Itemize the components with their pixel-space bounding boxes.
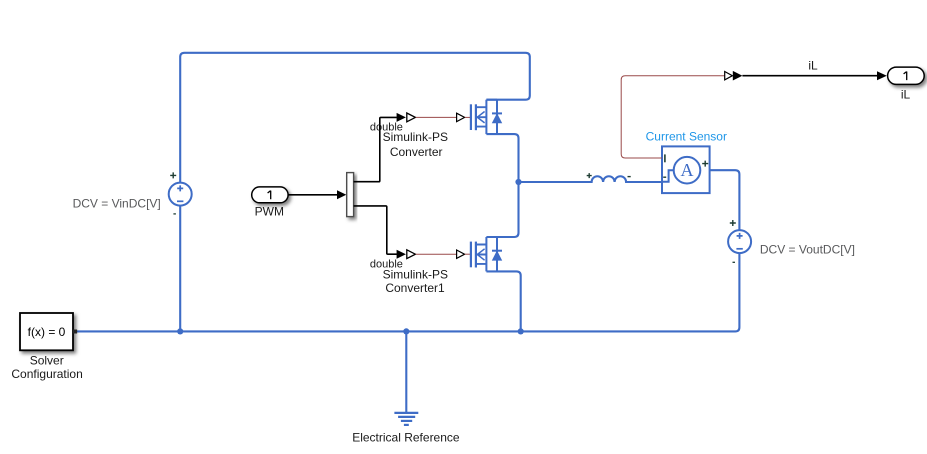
wire: bottom bus from Solver Configuration to VoutDC - terminal (77, 253, 740, 331)
svg-text:Electrical Reference: Electrical Reference (352, 430, 460, 444)
VinDC + port label (170, 172, 176, 178)
sensor - port label (663, 176, 666, 178)
Simulink-PS Converter1 block (triangle icon) (407, 250, 416, 259)
wire: demux out 1 to Simulink-PS Converter (354, 117, 397, 181)
svg-text:DCV = VinDC[V]: DCV = VinDC[V] (73, 197, 161, 211)
MOSFET Q2 (471, 182, 519, 271)
svg-text:f(x) = 0: f(x) = 0 (28, 325, 66, 339)
wire: switch node to inductor to Current Sensor (519, 176, 663, 182)
wire: demux out 2 to Simulink-PS Converter1 (354, 206, 397, 254)
input port PWM (252, 187, 288, 203)
arrowhead into outport (877, 71, 887, 80)
MOSFET Q1 (471, 100, 519, 182)
solver configuration block (20, 313, 77, 350)
current sensor block (662, 146, 710, 193)
svg-text:Current Sensor: Current Sensor (646, 129, 727, 143)
VinDC - port label (173, 213, 176, 215)
sensor + port label (702, 161, 708, 167)
wire: VinDC - terminal down to bottom bus (179, 206, 181, 332)
wire: ground lead (405, 331, 407, 412)
physical signal line: converter to Q1 gate (416, 116, 457, 118)
svg-text:A: A (681, 160, 694, 180)
arrowhead into Simulink-PS Converter1 (397, 250, 406, 259)
arrowhead into PS-Simulink converter (725, 72, 733, 80)
arrowhead into demux (337, 190, 346, 199)
junction: ground on bottom bus (403, 328, 409, 334)
dc voltage source VoutDC (728, 230, 751, 253)
inductor - port label (628, 176, 631, 178)
svg-text:Solver: Solver (30, 353, 64, 367)
inductor + port label (587, 173, 592, 178)
dc voltage source VinDC (169, 183, 192, 206)
junction: VinDC on bottom bus (177, 328, 183, 334)
wire: PWM to demux (288, 194, 337, 196)
wire: MOSFET Q2 source to bottom bus (486, 271, 520, 331)
svg-text:iL: iL (808, 59, 818, 73)
svg-text:Simulink-PS: Simulink-PS (383, 130, 448, 144)
junction: switch node (515, 179, 521, 185)
wire: Current Sensor + output to VoutDC + terminal (700, 170, 739, 230)
wire: converter to iL outport (742, 75, 877, 77)
VoutDC - port label (733, 261, 736, 263)
wire: top bus from VinDC + to MOSFET Q1 drain (180, 53, 530, 183)
svg-text:iL: iL (901, 88, 911, 102)
VoutDC + port label (730, 220, 736, 226)
svg-text:Simulink-PS: Simulink-PS (383, 268, 448, 282)
junction: Q2 source on bottom bus (518, 328, 524, 334)
output port iL (888, 67, 925, 84)
demux (347, 173, 354, 217)
arrowhead at Q1 gate (457, 113, 465, 121)
svg-text:Converter1: Converter1 (385, 281, 445, 295)
physical signal line: converter1 to Q2 gate (416, 253, 457, 255)
ground: Electrical Reference symbol (394, 413, 418, 425)
Simulink-PS Converter block (triangle icon) (407, 113, 416, 122)
arrowhead at Q2 gate (457, 250, 465, 258)
svg-text:Configuration: Configuration (11, 367, 82, 381)
svg-text:DCV = VoutDC[V]: DCV = VoutDC[V] (760, 242, 855, 256)
svg-text:Converter: Converter (390, 145, 443, 159)
arrowhead into Simulink-PS Converter (397, 113, 406, 122)
svg-text:PWM: PWM (255, 205, 284, 219)
gate stub Q1 (465, 116, 470, 118)
gate stub Q2 (465, 253, 470, 255)
physical signal line: sensor I output to PS-Simulink converter (621, 76, 724, 158)
PS-Simulink converter block (filled triangle icon) (733, 71, 743, 81)
sensor I port label (664, 154, 666, 162)
